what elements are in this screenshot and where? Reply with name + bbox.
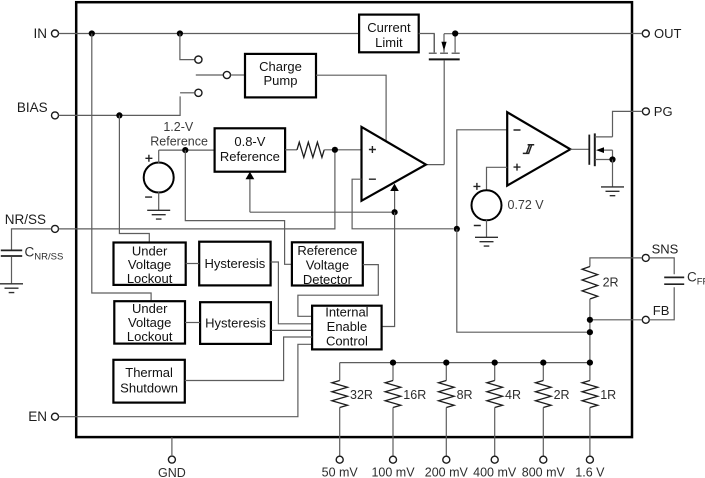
node on BIAS line bbox=[116, 112, 122, 118]
label 16R bbox=[403, 388, 426, 402]
wire error amp inverting input bbox=[352, 179, 453, 229]
resistor 16R (ladder) bbox=[385, 363, 401, 457]
wire UVLO1 to Hysteresis1 bbox=[186, 263, 200, 265]
ground (PG FET) bbox=[601, 187, 624, 196]
pin 200 mV bbox=[425, 456, 469, 478]
svg-text:Enable: Enable bbox=[327, 319, 367, 334]
node ladder rail 2R bbox=[540, 360, 546, 366]
enable arrow into 0.8V reference bbox=[246, 172, 395, 212]
svg-text:Hysteresis: Hysteresis bbox=[205, 316, 266, 331]
switch upper contact (from IN) bbox=[180, 34, 202, 64]
svg-text:Internal: Internal bbox=[325, 305, 368, 320]
wire FB sense down to FB node bbox=[457, 229, 590, 332]
svg-text:NR/SS: NR/SS bbox=[5, 212, 46, 227]
node on IN line (switch branch) bbox=[177, 30, 183, 36]
svg-text:FB: FB bbox=[653, 303, 670, 318]
wire PG FET to ground bbox=[612, 160, 614, 187]
svg-text:Under: Under bbox=[132, 243, 168, 258]
svg-text:Voltage: Voltage bbox=[128, 257, 171, 272]
block 0.8-V Reference bbox=[215, 128, 286, 171]
svg-text:Reference: Reference bbox=[297, 243, 357, 258]
wire BIAS node to first UVLO bbox=[119, 115, 149, 241]
node ladder rail 8R bbox=[443, 360, 449, 366]
pin OUT bbox=[642, 26, 681, 41]
svg-text:1.6 V: 1.6 V bbox=[575, 466, 605, 478]
svg-text:2R: 2R bbox=[554, 388, 570, 402]
block Under Voltage Lockout (BIAS) bbox=[114, 243, 186, 287]
pin GND bbox=[158, 437, 186, 478]
pin FB bbox=[642, 303, 669, 323]
wire UVLO2 to Hysteresis2 bbox=[185, 322, 200, 324]
wire Charge Pump to error amp bbox=[316, 75, 386, 141]
block Current Limit bbox=[359, 15, 419, 53]
svg-text:800 mV: 800 mV bbox=[522, 466, 566, 478]
wire 1.2V to 0.8V reference bbox=[159, 149, 215, 151]
wire EN to Internal Enable Control bbox=[59, 344, 313, 416]
svg-text:Charge: Charge bbox=[259, 59, 302, 74]
label 2R bbox=[554, 388, 570, 402]
label 8R bbox=[457, 388, 473, 402]
svg-text:100 mV: 100 mV bbox=[371, 466, 415, 478]
wire 2R to FB / ladder bbox=[589, 299, 591, 363]
wire 0.8V ref to filter resistor bbox=[285, 149, 297, 151]
svg-text:Lockout: Lockout bbox=[127, 271, 173, 286]
svg-text:1.2-V: 1.2-V bbox=[163, 120, 194, 134]
resistor 4R (ladder) bbox=[487, 363, 503, 457]
switch lower contact (from BIAS) bbox=[180, 89, 202, 96]
resistor (reference filter) bbox=[297, 142, 324, 157]
svg-text:0.72 V: 0.72 V bbox=[508, 198, 545, 212]
node on IN line (UVLO branch) bbox=[89, 30, 95, 36]
resistor 32R (ladder) bbox=[332, 363, 348, 457]
block Reference Voltage Detector bbox=[292, 242, 363, 286]
label 1R bbox=[600, 388, 616, 402]
pin 50 mV bbox=[322, 456, 359, 478]
svg-text:2R: 2R bbox=[603, 275, 619, 289]
block Hysteresis (BIAS) bbox=[199, 242, 270, 286]
svg-text:200 mV: 200 mV bbox=[425, 466, 469, 478]
op-amp error amplifier bbox=[362, 127, 426, 201]
node FB sense tee bbox=[454, 226, 460, 232]
wire IN to Current Limit bbox=[59, 33, 360, 35]
resistor 1R (ladder) bbox=[582, 363, 598, 457]
svg-text:Under: Under bbox=[132, 301, 168, 316]
capacitor CFF bbox=[664, 277, 684, 284]
ladder top rail bbox=[340, 362, 590, 364]
ground (1.2V source) bbox=[147, 210, 170, 219]
capacitor CNR/SS bbox=[1, 250, 22, 283]
label 2R (sense) bbox=[603, 275, 619, 289]
wire RVD to Internal Enable Control bbox=[298, 265, 378, 317]
svg-text:Limit: Limit bbox=[375, 35, 403, 50]
block Charge Pump bbox=[245, 54, 316, 98]
svg-text:SNS: SNS bbox=[652, 241, 679, 256]
wire OUT line bbox=[455, 33, 642, 35]
svg-text:1R: 1R bbox=[600, 388, 616, 402]
svg-text:400 mV: 400 mV bbox=[473, 466, 517, 478]
wire NR/SS to external capacitor bbox=[12, 229, 52, 250]
svg-text:Current: Current bbox=[367, 20, 411, 35]
svg-text:Hysteresis: Hysteresis bbox=[205, 256, 266, 271]
pin 400 mV bbox=[473, 456, 517, 478]
pin IN bbox=[34, 26, 59, 41]
voltage source 0.72V bbox=[472, 167, 508, 237]
node FB sense tee 2 bbox=[587, 329, 593, 335]
node PG FET source bbox=[609, 156, 615, 162]
wire NR/SS to reference node bbox=[59, 153, 335, 229]
svg-text:EN: EN bbox=[28, 409, 47, 424]
wire pass FET gate to error amp output bbox=[426, 60, 444, 164]
pin 100 mV bbox=[371, 456, 415, 478]
enable arrow into error amp bbox=[390, 184, 399, 213]
wire Internal Enable Control output bbox=[382, 212, 395, 326]
svg-text:Voltage: Voltage bbox=[306, 257, 349, 272]
wire FB bbox=[590, 319, 642, 321]
pin 800 mV bbox=[522, 456, 566, 478]
resistor 2R (sense divider) bbox=[582, 267, 598, 300]
label 0.72 V bbox=[508, 198, 545, 212]
wire comparator output bbox=[570, 148, 589, 150]
switch pole bbox=[196, 71, 245, 78]
svg-text:Thermal: Thermal bbox=[125, 365, 173, 380]
IC case border bbox=[76, 2, 632, 437]
svg-text:Control: Control bbox=[326, 334, 368, 349]
wire IN node to second UVLO bbox=[92, 34, 151, 301]
wire SNS to 2R bbox=[590, 258, 642, 267]
svg-text:Lockout: Lockout bbox=[127, 329, 173, 344]
resistor 8R (ladder) bbox=[439, 363, 455, 457]
pin EN bbox=[28, 409, 58, 424]
node enable junction bbox=[392, 209, 398, 215]
label CFF bbox=[687, 270, 705, 288]
PG transistor (open drain NMOS) bbox=[589, 133, 612, 166]
wire 1.2V node to Reference Voltage Detector bbox=[185, 150, 292, 264]
block Internal Enable Control bbox=[312, 305, 382, 350]
label 1.2-V Reference bbox=[150, 120, 208, 149]
block Thermal Shutdown bbox=[113, 360, 184, 403]
comparator (power good) bbox=[507, 112, 570, 185]
svg-text:Pump: Pump bbox=[264, 73, 298, 88]
label CNR/SS bbox=[25, 245, 64, 263]
wire FB sense to comparator bbox=[457, 130, 507, 229]
svg-text:4R: 4R bbox=[505, 388, 521, 402]
voltage source 1.2V bbox=[144, 150, 174, 210]
pass transistor (PMOS with body diode) bbox=[429, 34, 460, 60]
svg-text:IN: IN bbox=[34, 26, 48, 41]
wire Hysteresis1 to Internal Enable Control bbox=[271, 262, 313, 324]
wire filter to amp + bbox=[324, 149, 361, 151]
label 4R bbox=[505, 388, 521, 402]
wire Current Limit to pass FET bbox=[419, 33, 435, 36]
svg-text:Detector: Detector bbox=[303, 272, 353, 287]
ground (CNR/SS) bbox=[0, 284, 23, 293]
pin BIAS bbox=[17, 100, 59, 119]
node pass FET / OUT bbox=[452, 30, 458, 36]
svg-text:0.8-V: 0.8-V bbox=[234, 134, 265, 149]
node FB pin tee bbox=[587, 317, 593, 323]
svg-text:Reference: Reference bbox=[220, 149, 280, 164]
pin 1.6 V bbox=[575, 456, 605, 478]
svg-text:CNR/SS: CNR/SS bbox=[25, 245, 64, 263]
ground (0.72V source) bbox=[475, 237, 498, 246]
svg-text:50 mV: 50 mV bbox=[322, 466, 359, 478]
block Hysteresis (IN) bbox=[200, 302, 271, 344]
block Under Voltage Lockout (IN) bbox=[114, 301, 185, 344]
node ladder rail 4R bbox=[492, 360, 498, 366]
svg-text:32R: 32R bbox=[350, 388, 373, 402]
wire Hysteresis2 to Internal Enable Control bbox=[271, 329, 312, 331]
capacitor CFF wire bbox=[649, 258, 674, 320]
svg-text:OUT: OUT bbox=[654, 26, 682, 41]
svg-text:GND: GND bbox=[158, 466, 186, 478]
resistor 2R (ladder) bbox=[536, 363, 552, 457]
wire BIAS bbox=[59, 96, 181, 115]
svg-text:BIAS: BIAS bbox=[17, 100, 48, 115]
svg-text:PG: PG bbox=[654, 104, 673, 119]
svg-text:8R: 8R bbox=[457, 388, 473, 402]
pin SNS bbox=[642, 241, 678, 261]
wire Thermal Shutdown to Internal Enable Control bbox=[185, 337, 312, 381]
svg-text:Reference: Reference bbox=[150, 135, 208, 149]
svg-text:16R: 16R bbox=[403, 388, 426, 402]
label 32R bbox=[350, 388, 373, 402]
node ladder rail 1R bbox=[587, 360, 593, 366]
wire PG bbox=[613, 111, 643, 136]
svg-text:Voltage: Voltage bbox=[128, 315, 171, 330]
pin NR/SS bbox=[5, 212, 59, 232]
node 1.2V reference bbox=[182, 147, 188, 153]
pin PG bbox=[642, 104, 672, 119]
svg-text:CFF: CFF bbox=[687, 270, 705, 288]
svg-text:Shutdown: Shutdown bbox=[120, 381, 178, 396]
node reference filter bbox=[332, 147, 338, 153]
node ladder rail 16R bbox=[390, 360, 396, 366]
